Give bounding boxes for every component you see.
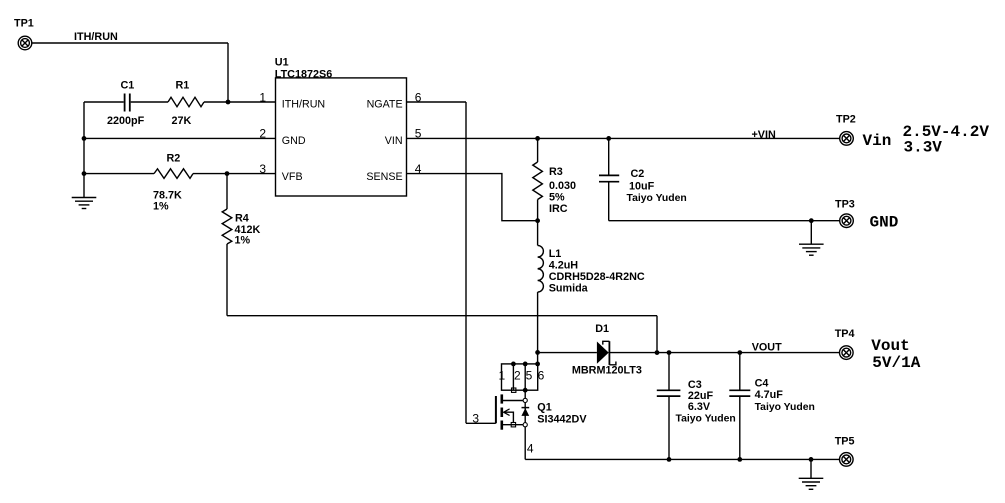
svg-text:C2: C2 — [631, 168, 645, 180]
svg-text:SENSE: SENSE — [366, 171, 402, 183]
svg-text:LTC1872S6: LTC1872S6 — [275, 68, 332, 80]
svg-text:Vout: Vout — [871, 337, 909, 355]
svg-text:Taiyo Yuden: Taiyo Yuden — [627, 193, 687, 204]
transistor Q1 channel bar mid — [500, 408, 503, 418]
wire Q1 source down — [524, 427, 526, 459]
SECTION: right — [752, 113, 990, 466]
svg-text:TP5: TP5 — [835, 436, 855, 448]
svg-text:C4: C4 — [755, 378, 769, 390]
wire SENSE from pin4 — [407, 174, 538, 221]
svg-text:Sumida: Sumida — [549, 283, 589, 295]
svg-text:1%: 1% — [153, 201, 169, 213]
svg-text:1: 1 — [259, 90, 266, 104]
svg-text:2: 2 — [514, 369, 521, 383]
svg-text:ITH/RUN: ITH/RUN — [282, 99, 325, 111]
svg-text:6.3V: 6.3V — [688, 401, 711, 413]
wire pin2 GND line — [84, 137, 276, 139]
SECTION: bottom — [472, 353, 839, 490]
svg-text:5V/1A: 5V/1A — [872, 354, 920, 372]
junction left rail pin2 — [82, 136, 87, 141]
junction bottom at ground tap — [809, 457, 814, 462]
wire VFB node to R4 — [226, 174, 228, 209]
wire VIN from pin5 to TP2 — [407, 137, 840, 139]
testpoint TP5 — [835, 436, 855, 467]
svg-text:TP4: TP4 — [835, 328, 855, 340]
wire feedback down to VOUT — [656, 316, 658, 353]
svg-text:VIN: VIN — [385, 135, 403, 147]
wire feedback horizontal — [227, 315, 657, 317]
SECTION: ic — [259, 56, 421, 196]
svg-text:L1: L1 — [549, 248, 562, 260]
svg-text:5: 5 — [526, 369, 533, 383]
wire source stub — [503, 424, 523, 426]
junction VOUT at feedback tap — [655, 350, 660, 355]
svg-text:6: 6 — [538, 369, 545, 383]
svg-text:GND: GND — [282, 135, 306, 147]
svg-text:IRC: IRC — [549, 203, 568, 215]
op-amp U1 LTC1872S6 body — [276, 78, 407, 196]
ground near TP3 — [799, 244, 824, 255]
wire NGATE from pin6 — [407, 101, 467, 103]
svg-text:0.030: 0.030 — [549, 180, 576, 192]
junction SENSE node — [535, 218, 540, 223]
junction VIN at C2 — [606, 136, 611, 141]
diode D1 MBRM120LT3 — [572, 323, 642, 377]
testpoint TP2 — [836, 113, 856, 145]
testpoint TP4 — [835, 328, 855, 359]
svg-text:TP3: TP3 — [835, 198, 855, 210]
svg-text:+VIN: +VIN — [752, 129, 777, 141]
svg-text:R3: R3 — [549, 166, 563, 178]
junction GND at ground tap — [809, 218, 814, 223]
transistor Q1 channel bar bottom — [500, 421, 503, 430]
wire NGATE vertical to Q1 gate — [465, 102, 467, 423]
svg-text:VFB: VFB — [282, 171, 303, 183]
junction VIN at R3 — [535, 136, 540, 141]
junction bottom at C4 — [737, 457, 742, 462]
svg-text:3: 3 — [259, 162, 266, 176]
svg-text:CDRH5D28-4R2NC: CDRH5D28-4R2NC — [549, 271, 645, 283]
svg-text:2200pF: 2200pF — [107, 115, 145, 127]
svg-text:TP1: TP1 — [14, 18, 34, 30]
pin marker circle source — [523, 423, 527, 427]
svg-text:3: 3 — [472, 411, 479, 425]
wire R2 to pin3 — [193, 173, 276, 175]
svg-text:2: 2 — [259, 127, 266, 141]
svg-text:C1: C1 — [121, 80, 135, 92]
SECTION: mid — [407, 102, 840, 423]
svg-text:3.3V: 3.3V — [904, 138, 943, 156]
svg-text:4: 4 — [527, 442, 534, 456]
svg-text:NGATE: NGATE — [367, 99, 403, 111]
testpoint TP3 — [835, 198, 855, 227]
svg-text:VOUT: VOUT — [752, 342, 782, 354]
wire R1 to pin1 — [204, 101, 276, 103]
pin marker square source — [511, 423, 515, 427]
transistor Q1 pin box — [502, 364, 538, 390]
svg-text:D1: D1 — [595, 323, 609, 335]
wire L1 to switch node — [537, 292, 539, 364]
svg-text:TP2: TP2 — [836, 113, 856, 125]
svg-text:10uF: 10uF — [629, 180, 655, 192]
wire NGATE to gate — [466, 422, 496, 424]
junction Q1 box bottom drain — [523, 388, 528, 393]
svg-text:U1: U1 — [275, 56, 289, 68]
wire R3 bottom lead — [537, 200, 539, 246]
svg-text:R1: R1 — [176, 80, 190, 92]
capacitor C4 — [729, 353, 815, 460]
junction left rail pin3 — [82, 171, 87, 176]
svg-text:R2: R2 — [167, 153, 181, 165]
junction switch node — [535, 350, 540, 355]
resistor R3 — [533, 162, 576, 215]
wire drain vertical — [524, 390, 526, 398]
svg-text:1%: 1% — [235, 235, 251, 247]
inductor L1 — [538, 245, 645, 294]
wire ground tap — [810, 221, 812, 245]
wire Q1 box divider b — [524, 364, 526, 390]
resistor R2 — [153, 153, 193, 213]
svg-text:Q1: Q1 — [537, 402, 551, 414]
wire GND net C2 to TP3 — [609, 220, 840, 222]
pin marker circle drain — [523, 398, 527, 402]
transistor Q1 body stub with arrow — [504, 409, 514, 423]
junction at R1-pin1 node — [226, 100, 231, 105]
svg-text:MBRM120LT3: MBRM120LT3 — [572, 365, 642, 377]
body diode of Q1 — [521, 403, 529, 423]
wire left rail — [83, 102, 85, 198]
svg-text:4.2uH: 4.2uH — [549, 260, 579, 272]
svg-text:4.7uF: 4.7uF — [755, 389, 784, 401]
transistor Q1 gate bar — [495, 396, 497, 423]
wire VOUT net D1 to TP4 — [609, 352, 839, 354]
svg-text:Taiyo Yuden: Taiyo Yuden — [755, 402, 815, 413]
svg-text:5%: 5% — [549, 191, 565, 203]
svg-text:Taiyo Yuden: Taiyo Yuden — [676, 414, 736, 425]
svg-text:R4: R4 — [235, 213, 249, 225]
junction Q1 box top b — [523, 362, 528, 367]
ground left rail — [72, 198, 97, 209]
resistor R4 — [222, 209, 260, 247]
svg-text:22uF: 22uF — [688, 390, 714, 402]
svg-text:Vin: Vin — [863, 132, 892, 150]
wire R3 top lead — [537, 138, 539, 162]
wire drain stub — [503, 400, 523, 402]
wire ITH/RUN net from TP1 — [32, 42, 228, 44]
wire ground tap bottom — [810, 459, 812, 478]
capacitor C1 — [107, 80, 145, 128]
testpoint TP1 — [14, 18, 34, 50]
wire vertical TP1 to pin1 — [227, 43, 229, 102]
junction bottom at C3 — [667, 457, 672, 462]
wire R4 down — [226, 244, 228, 316]
svg-text:ITH/RUN: ITH/RUN — [74, 31, 118, 43]
resistor R1 — [168, 80, 204, 128]
wire pin3 line left of R2 — [84, 173, 154, 175]
transistor Q1 channel bar top — [500, 394, 503, 403]
svg-text:1: 1 — [498, 369, 505, 383]
svg-text:GND: GND — [870, 213, 899, 231]
SECTION: left — [14, 18, 657, 353]
capacitor C2 — [599, 138, 687, 220]
junction VFB divider node — [225, 171, 230, 176]
wire C1 to R1 — [131, 101, 168, 103]
junction VOUT at C3 — [667, 350, 672, 355]
ground near TP5 — [799, 478, 824, 489]
svg-text:27K: 27K — [172, 115, 192, 127]
capacitor C3 — [657, 353, 736, 460]
junction Q1 box top a — [511, 362, 516, 367]
junction Q1 box top c — [535, 362, 540, 367]
svg-text:SI3442DV: SI3442DV — [537, 414, 587, 426]
wire pin1 line left of C1 — [84, 101, 124, 103]
pin marker square on box bottom — [512, 388, 516, 392]
wire bottom ground net — [525, 458, 840, 460]
wire Q1 box divider a — [512, 364, 514, 390]
junction VOUT at C4 — [737, 350, 742, 355]
wire D1 anode from switch node — [538, 352, 597, 354]
